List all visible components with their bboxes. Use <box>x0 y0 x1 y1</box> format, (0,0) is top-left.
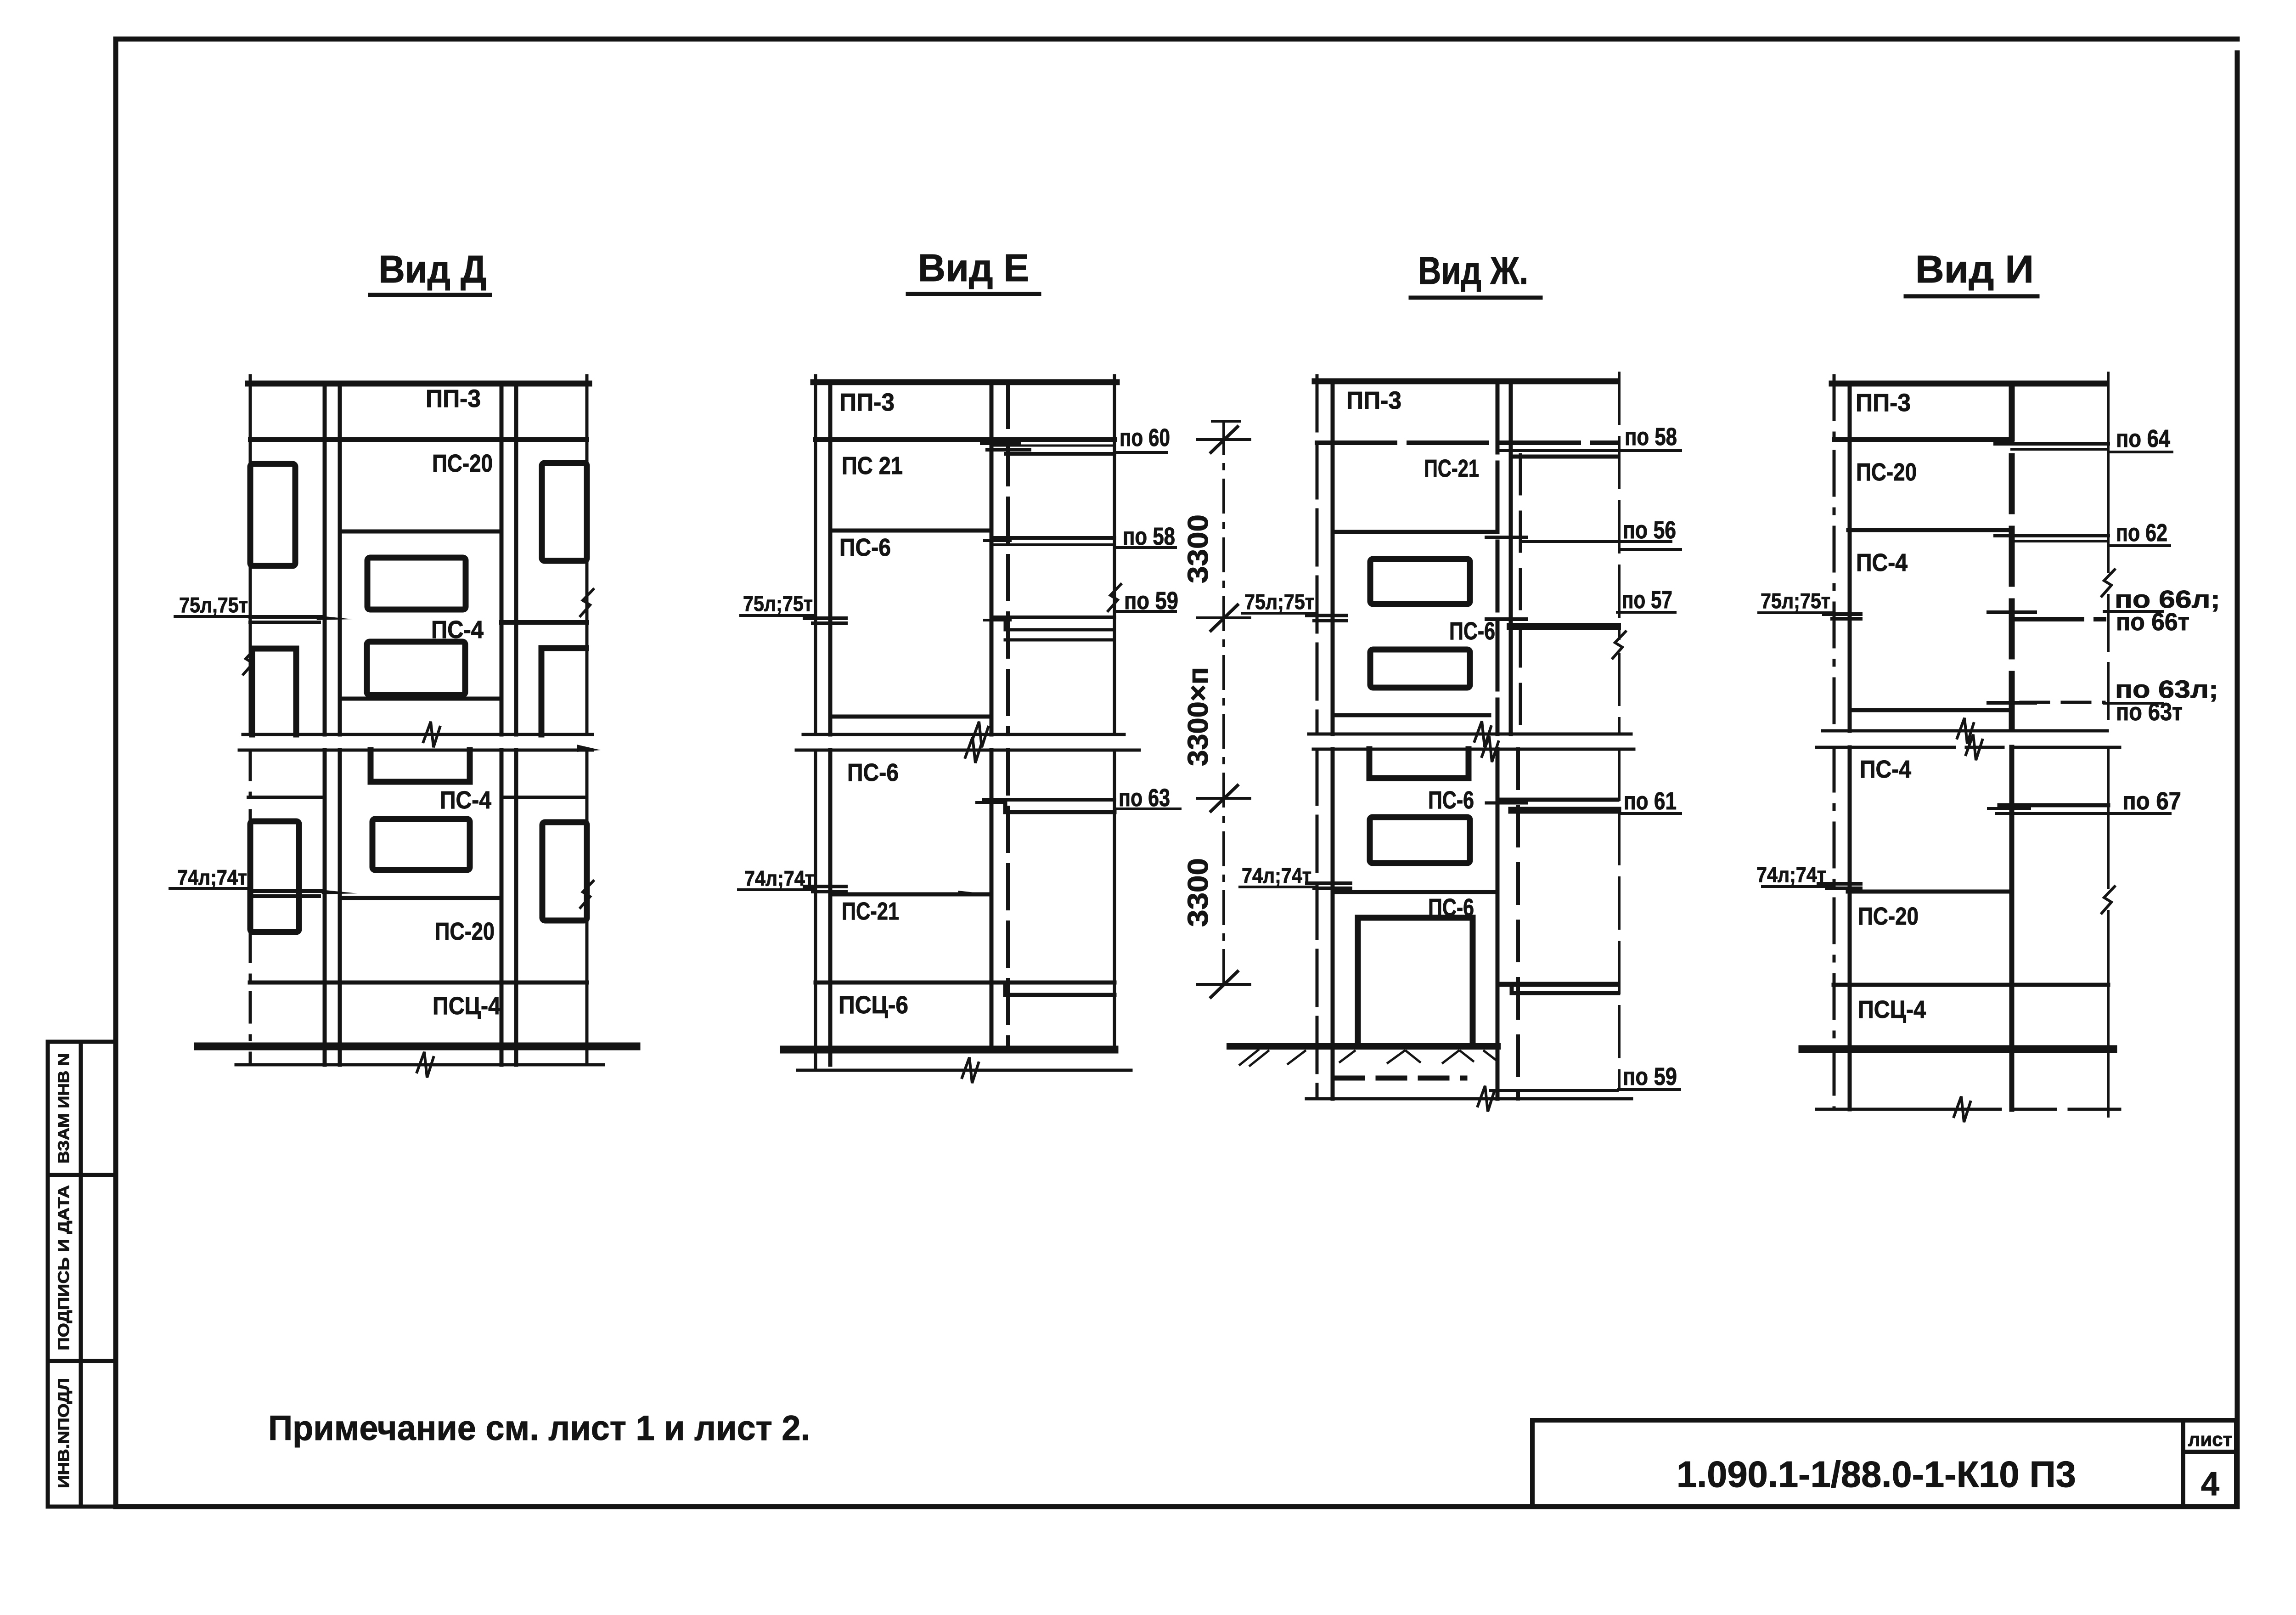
svg-text:по 61: по 61 <box>1624 787 1677 815</box>
joint по 63л dashed line <box>2021 701 2104 704</box>
window opening 1 <box>1370 559 1470 604</box>
window opening left upper <box>250 464 295 566</box>
ground line <box>198 1043 636 1050</box>
ground hatching <box>1240 1050 1496 1066</box>
break mark left boundary <box>243 648 256 674</box>
storey break zigzag 2 <box>1482 736 1498 762</box>
svg-text:по 66т: по 66т <box>2116 608 2189 636</box>
leader underline по 67 <box>1997 812 2170 815</box>
svg-text:ПОДПИСЬ И ДАТА: ПОДПИСЬ И ДАТА <box>55 1185 73 1350</box>
storey break line 1 <box>1823 729 2107 733</box>
joint по 61 cross dash <box>1486 802 1526 805</box>
svg-text:по 56: по 56 <box>1623 516 1676 544</box>
break mark right axis <box>1613 632 1626 658</box>
bottom break line <box>798 1069 1131 1072</box>
joint arrow 75 left <box>316 616 353 620</box>
svg-text:ПС-6: ПС-6 <box>1428 786 1474 814</box>
storey break line 1 <box>803 733 1124 736</box>
wire: right boundary lower <box>585 750 589 1065</box>
panel ПСЦ-4 top edge <box>250 981 587 985</box>
dimension line vertical <box>1222 421 1225 984</box>
svg-text:ПСЦ-4: ПСЦ-4 <box>433 992 501 1020</box>
panel ПС 21 bottom edge <box>830 529 991 533</box>
svg-text:1.090.1-1/88.0-1-К10 П3: 1.090.1-1/88.0-1-К10 П3 <box>1677 1454 2076 1495</box>
break mark right boundary lower <box>580 881 593 908</box>
joint по 63л cross dashes <box>1988 701 2035 705</box>
bottom break line <box>1817 1108 2120 1111</box>
bottom break zigzag <box>1954 1096 1970 1122</box>
wire: left boundary pair lower <box>1316 749 1319 1099</box>
bottom line <box>1306 1097 1632 1101</box>
joint по 67 lines <box>1999 803 2108 807</box>
joint по 64 lines <box>1995 442 2108 446</box>
window opening centre cut (lower storey top) <box>371 750 470 782</box>
joint 75 left lines <box>1307 614 1346 617</box>
panel ПС-6 lower top edge <box>1334 890 1497 894</box>
joint по 60 cross dash 1 <box>982 441 1019 445</box>
storey break zigzag 1 <box>1474 721 1491 747</box>
svg-text:74л;74т: 74л;74т <box>177 865 247 889</box>
wire: left boundary upper <box>249 376 252 734</box>
svg-text:74л;74т: 74л;74т <box>1756 863 1826 887</box>
window opening left lower <box>250 821 299 932</box>
storey break line 1 <box>1309 733 1631 736</box>
leader underline 74л;74т <box>1240 886 1317 888</box>
step shelf right of ПСЦ-6 <box>1005 984 1114 995</box>
panel ПС-20 bottom edge <box>340 530 501 534</box>
wire: middle vertical pair lower <box>1496 749 1500 1099</box>
joint line mid right <box>502 796 586 799</box>
wire: left panel joint vertical pair lower <box>323 750 327 1065</box>
lintel shelf under по 63 <box>1005 803 1114 812</box>
leader underline по 58 <box>1114 546 1176 549</box>
svg-text:3300×п: 3300×п <box>1182 667 1214 766</box>
wire: right axis boundary upper <box>1618 373 1621 638</box>
joint 74 left lines <box>1818 882 1861 886</box>
joint по 62 lines <box>1995 534 2108 537</box>
leader underline 74л;74т <box>738 888 816 891</box>
wire: middle vertical pair upper <box>990 384 994 734</box>
leader underline по 59 <box>1619 1088 1680 1091</box>
svg-text:по 59: по 59 <box>1623 1063 1677 1090</box>
lintel bar под по 61 <box>1512 807 1618 814</box>
dimension tick bottom <box>1198 983 1250 986</box>
ground line <box>1802 1045 2113 1053</box>
svg-text:74л;74т: 74л;74т <box>1242 864 1311 887</box>
joint 74 left lines <box>1307 881 1351 885</box>
svg-text:по 64: по 64 <box>2116 425 2170 452</box>
panel ПС-21 top edge lower <box>830 892 991 897</box>
dimension tick at по63 level <box>1198 797 1250 800</box>
doorway opening <box>1358 918 1473 1044</box>
wire: left boundary pair upper <box>814 376 817 734</box>
wire: middle heavy dashed vertical upper <box>2009 384 2015 731</box>
leader underline 74л;74т <box>170 887 250 890</box>
dimension tick at по60 level <box>1198 438 1250 441</box>
bottom break zigzag <box>962 1057 979 1083</box>
svg-text:ПП-3: ПП-3 <box>1346 387 1401 414</box>
joint line 75 right <box>501 620 587 625</box>
joint arrow 74 left <box>321 890 358 894</box>
svg-text:3300: 3300 <box>1182 514 1214 583</box>
window opening centre 3 <box>372 819 470 870</box>
joint по 60 thin line <box>991 445 1114 447</box>
svg-text:по 67: по 67 <box>2122 787 2181 815</box>
wire: right boundary upper <box>2107 373 2110 571</box>
window opening right lower <box>542 822 587 920</box>
svg-text:Вид Е: Вид Е <box>918 246 1029 289</box>
joint line mid left <box>248 796 325 799</box>
panel ПС-20 top edge lower storey <box>340 896 501 900</box>
leader underline 75л,75т <box>175 615 250 618</box>
svg-text:по 60: по 60 <box>1120 424 1170 452</box>
svg-text:75л,75т: 75л,75т <box>179 593 248 617</box>
window opening right lower of upper storey (cut) <box>541 648 586 734</box>
svg-text:по 58: по 58 <box>1123 523 1175 550</box>
ground line <box>784 1046 1114 1054</box>
storey break arrowhead <box>577 745 601 752</box>
joint по 56 line <box>1521 540 1671 543</box>
storey break zigzag 1 <box>1957 718 1974 744</box>
svg-text:4: 4 <box>2201 1466 2219 1502</box>
svg-text:ПС-6: ПС-6 <box>847 759 899 786</box>
panel ПС-20 lower top edge <box>1848 890 2012 894</box>
wire: right panel joint vertical pair upper <box>500 384 504 734</box>
leader underline по 56 <box>1619 548 1681 551</box>
wire: left boundary pair lower <box>814 750 817 1070</box>
joint по 66 cross dashes <box>1988 610 2035 614</box>
bottom break line <box>236 1063 603 1067</box>
wire: left axis vertical lower <box>1833 747 1836 1109</box>
wire: left boundary pair upper <box>1316 376 1319 734</box>
lintel bar под по 57 <box>1510 623 1617 630</box>
joint 74 left lines <box>805 885 846 888</box>
svg-text:по 58: по 58 <box>1625 423 1677 451</box>
wire: right boundary upper <box>1113 376 1116 734</box>
svg-text:ПП-3: ПП-3 <box>839 389 895 416</box>
break mark right boundary upper <box>2102 570 2115 596</box>
wire: inner dashed vertical <box>1519 455 1522 734</box>
leader underline по 64 <box>2108 451 2172 453</box>
wire: middle vertical pair upper <box>1496 384 1500 734</box>
window opening 2 <box>1370 649 1470 688</box>
wire: middle vertical lower <box>2009 747 2015 1109</box>
window opening left lower of upper storey (cut) <box>252 649 296 734</box>
wire: left axis vertical upper <box>1833 376 1836 731</box>
joint line 75 left <box>250 615 321 619</box>
storey break zigzag 2 <box>1966 734 1982 760</box>
panel ПС-6 bottom edge <box>830 715 991 719</box>
panel ПП-3 top edge <box>248 381 589 387</box>
left margin stamp strip <box>48 1042 116 1507</box>
leader underline 74л;74т <box>1762 885 1834 888</box>
svg-text:по 57: по 57 <box>1622 586 1672 614</box>
panel ПС-21 bottom edge <box>1333 530 1497 534</box>
wire: right boundary lower <box>1113 750 1116 1050</box>
panel ПП-3 top edge <box>1832 381 2106 387</box>
svg-text:Примечание см. лист 1 и лист: Примечание см. лист 1 и лист 2. <box>268 1409 810 1448</box>
joint 75 left lines <box>805 616 846 620</box>
panel ПСЦ-6 top edge <box>816 981 1114 985</box>
leader underline по 66л <box>2104 610 2162 613</box>
storey break zigzag 1 <box>972 722 988 747</box>
window opening centre 1 <box>367 558 466 610</box>
lintel shelf under по 59 <box>1005 621 1114 630</box>
svg-text:Вид Д: Вид Д <box>379 248 487 291</box>
bottom break zigzag <box>1478 1086 1494 1112</box>
wire: right axis boundary lower <box>1618 749 1621 1089</box>
svg-text:ПС-6: ПС-6 <box>839 534 891 561</box>
panel ПП-3 bottom edge <box>1834 437 2012 442</box>
svg-text:ПС-4: ПС-4 <box>1856 549 1908 576</box>
storey break zigzag 1 <box>423 722 440 747</box>
svg-text:ПС-20: ПС-20 <box>1856 458 1917 486</box>
break mark right boundary <box>580 589 593 616</box>
ground line <box>1230 1043 1497 1050</box>
wire: right panel joint vertical pair lower <box>500 750 504 1065</box>
leader underline 75л;75т <box>1759 611 1834 614</box>
leader underline по 63л <box>2104 702 2162 705</box>
lintel shelf under по 58 <box>1511 455 1616 459</box>
panel ПП-3 top edge <box>1315 378 1617 384</box>
panel ПС-6 bottom edge <box>1333 713 1489 717</box>
svg-text:ПСЦ-6: ПСЦ-6 <box>838 991 908 1019</box>
svg-text:ПС-6: ПС-6 <box>1449 617 1495 645</box>
joint по 59 bar <box>1498 982 1616 987</box>
svg-text:по 63: по 63 <box>1119 784 1170 812</box>
leader underline по 58 <box>1498 449 1681 452</box>
joint по 56 cross dashes <box>1486 536 1526 539</box>
joint arrow ПС-21 <box>958 891 991 895</box>
title block <box>1532 1420 2237 1507</box>
lintel shelf под по 59 <box>1512 986 1618 993</box>
joint по 57 cross dashes <box>1486 617 1526 621</box>
svg-text:ПСЦ-4: ПСЦ-4 <box>1858 996 1926 1023</box>
lintel shelf под по 66 <box>2013 617 2104 621</box>
storey break line 2 <box>1313 748 1634 751</box>
wire: middle vertical pair lower <box>990 750 994 1050</box>
svg-text:ПП-3: ПП-3 <box>1856 389 1911 417</box>
svg-text:ИНВ.NПОДЛ: ИНВ.NПОДЛ <box>55 1378 73 1488</box>
joint по 59 lines right <box>991 616 1114 619</box>
leader underline по 61 <box>1620 812 1681 815</box>
svg-text:ВЗАМ ИНВ N: ВЗАМ ИНВ N <box>55 1053 73 1163</box>
wire: right boundary upper <box>585 376 589 734</box>
dimension tick at 75 level <box>1198 616 1250 619</box>
panel ПП-3 bottom edge / по 60 joint <box>816 437 1114 442</box>
joint 75 left lines <box>1824 612 1861 616</box>
svg-text:лист: лист <box>2188 1429 2232 1450</box>
window opening centre 2 <box>367 642 465 695</box>
panel ПС-4 bottom edge <box>1850 708 2008 712</box>
svg-text:ПС-21: ПС-21 <box>1424 455 1479 482</box>
bottom break zigzag <box>417 1052 433 1078</box>
svg-text:по 63т: по 63т <box>2116 698 2183 726</box>
storey break line 1 <box>243 733 592 736</box>
wire: left boundary lower (axis) <box>249 750 252 1065</box>
storey break zigzag 2 <box>965 737 982 763</box>
leader underline по 59 <box>1114 610 1176 613</box>
joint по 58 lines <box>991 536 1114 540</box>
svg-text:ПС-20: ПС-20 <box>435 918 495 945</box>
svg-text:ПС-21: ПС-21 <box>842 898 899 925</box>
leader underline по 60 <box>1114 451 1166 454</box>
joint по 59 arrow mark <box>1108 584 1121 611</box>
leader underline по 57 <box>1617 611 1675 614</box>
leader underline 75л;75т <box>1243 612 1317 615</box>
bottom thin line <box>1491 1089 1617 1092</box>
joint line 74 left <box>250 889 321 893</box>
panel ПС-20 bottom edge <box>1848 528 2012 532</box>
joint по 60 cross dash 2 <box>987 448 1030 452</box>
svg-text:ПС-4: ПС-4 <box>440 786 491 814</box>
foundation dashed line <box>1336 1076 1465 1081</box>
wire: right boundary lower <box>2107 747 2110 887</box>
joint по 63 lines <box>984 798 1114 802</box>
wire: left solid vertical lower <box>1848 747 1852 1109</box>
svg-text:75л;75т: 75л;75т <box>1244 590 1314 614</box>
svg-text:ПС-20: ПС-20 <box>1858 903 1919 930</box>
break mark right boundary lower <box>2102 887 2115 913</box>
svg-text:ПС-20: ПС-20 <box>432 450 493 477</box>
svg-text:по 62: по 62 <box>2116 519 2167 547</box>
leader underline по 62 <box>2108 544 2170 547</box>
window opening 3 <box>1370 817 1470 863</box>
leader underline по 63 <box>1114 807 1180 810</box>
svg-text:Вид И: Вид И <box>1915 248 2034 291</box>
storey break line 2 <box>796 749 1139 752</box>
panel ПП-3 top edge <box>813 379 1117 385</box>
panel ПС-4 bottom edge <box>340 697 501 701</box>
storey break line 2 <box>1817 746 2120 749</box>
wire: left solid vertical upper <box>1848 384 1852 731</box>
joint по 61 line <box>1497 798 1617 802</box>
svg-text:Вид Ж.: Вид Ж. <box>1418 249 1528 292</box>
dimension tick top stub <box>1212 420 1240 423</box>
svg-text:75л;75т: 75л;75т <box>743 592 813 616</box>
svg-text:3300: 3300 <box>1182 858 1214 927</box>
svg-text:ПС 21: ПС 21 <box>842 452 903 480</box>
panel ПП-3 bottom edge / по 58 joint <box>1317 440 1617 445</box>
lintel shelf under по 60 <box>1006 452 1114 456</box>
panel ПСЦ-4 top edge <box>1834 983 2108 987</box>
svg-text:75л;75т: 75л;75т <box>1761 589 1830 613</box>
wire: left panel joint vertical pair upper <box>323 384 327 734</box>
storey break line 2 <box>239 749 592 752</box>
window opening cut (lower storey) <box>1369 749 1469 778</box>
window opening right upper <box>542 463 587 561</box>
leader underline 75л;75т <box>741 614 816 617</box>
panel ПП-3 bottom edge <box>250 437 587 442</box>
svg-text:ПС-4: ПС-4 <box>1860 756 1911 783</box>
svg-text:ПП-3: ПП-3 <box>426 385 481 412</box>
